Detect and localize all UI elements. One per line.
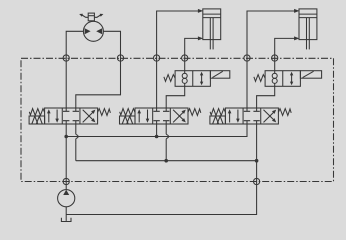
junction dot P-line at valve2 <box>155 135 159 139</box>
arrowhead into cylinder1 rod port <box>198 36 203 40</box>
junction dot P-line at valve1 <box>64 135 68 139</box>
wire cylinder1 rod-end line <box>185 38 199 58</box>
port node circle A3 (cyl2 cap at boundary) <box>244 55 250 61</box>
wire cylinder1 cap-end line <box>157 11 199 58</box>
port node circle B1 (motor line at boundary) <box>117 55 123 61</box>
wire pump riser (P supply to valve1) <box>65 124 67 190</box>
cylinder 1 (vertical, rod down) <box>203 9 221 50</box>
arrowhead into cylinder1 cap port <box>198 9 203 13</box>
tank (reservoir) <box>61 218 71 222</box>
wire valve2 P port drop <box>156 124 158 137</box>
wire valve1 B port jog to motor right leg <box>76 58 121 108</box>
wire circle to poppet valve1 top <box>184 58 186 71</box>
poppet valve 1 (2/2 solenoid seat valve) <box>164 71 230 87</box>
wire pump suction line <box>65 207 67 221</box>
junction dot T-line at return pipe <box>255 159 259 163</box>
junction dot T-line at valve2 <box>164 159 168 163</box>
wire tank return pipe <box>66 161 256 215</box>
wire valve1 T drop with hop over P line <box>76 124 78 161</box>
poppet valve 2 (2/2 solenoid seat valve) <box>254 71 322 87</box>
directional valve V3 (4/3 manual) <box>210 108 291 124</box>
pump P (fixed displacement) <box>58 190 75 207</box>
wire valve2 T drop with hop over P line <box>166 124 168 161</box>
directional valve V2 (4/3 manual) <box>120 108 201 124</box>
wire poppet1 bottom to valve2 B port <box>166 86 185 108</box>
port node circle P (pump inlet at boundary) <box>63 178 69 184</box>
arrowhead into cylinder2 rod port <box>294 36 299 40</box>
hydraulic motor M1 (bidirectional) <box>79 13 103 41</box>
cylinder 2 (vertical, rod down) <box>299 9 317 50</box>
wire T manifold line <box>76 160 257 162</box>
wire poppet2 bottom to valve3 B port <box>257 86 275 108</box>
wire valve1 A port to motor circle <box>65 58 67 108</box>
wire valve3 T drop <box>256 124 258 161</box>
directional valve V1 (4/3 manual) <box>29 108 110 124</box>
wire valve2 A port up to circle <box>156 58 158 108</box>
enclosure (valve manifold boundary, chain line) <box>21 58 334 181</box>
wire valve3 A port up to circle <box>246 58 248 108</box>
arrowhead into cylinder2 cap port <box>294 9 299 13</box>
wire P manifold line to valve3 P port <box>66 124 247 137</box>
wire motor right leg <box>104 31 121 58</box>
wire cylinder2 cap-end line <box>247 11 295 58</box>
wire circle to poppet valve2 top <box>274 58 276 71</box>
port node circle B3 (cyl2 rod at boundary) <box>272 55 278 61</box>
port node circle B2 (cyl1 rod at boundary) <box>182 55 188 61</box>
wire motor left leg <box>66 31 83 58</box>
port node circle A1 (motor line at boundary) <box>63 55 69 61</box>
port node circle A2 (cyl1 cap at boundary) <box>154 55 160 61</box>
port node circle T (return at boundary) <box>254 178 260 184</box>
wire cylinder2 rod-end line <box>275 38 295 58</box>
